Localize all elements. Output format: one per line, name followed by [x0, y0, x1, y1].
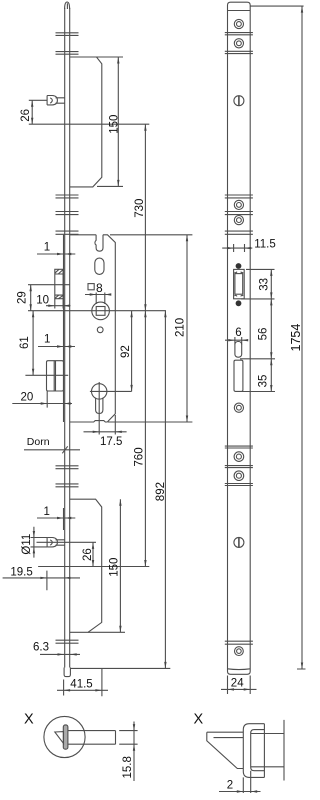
- svg-text:Dorn: Dorn: [27, 436, 50, 448]
- svg-text:1: 1: [44, 334, 50, 346]
- svg-text:11.5: 11.5: [254, 239, 276, 251]
- svg-text:26: 26: [20, 109, 32, 122]
- svg-text:150: 150: [108, 558, 120, 577]
- svg-text:61: 61: [19, 336, 31, 349]
- svg-text:1: 1: [44, 506, 50, 518]
- svg-text:760: 760: [133, 447, 145, 466]
- svg-text:17.5: 17.5: [100, 436, 122, 448]
- svg-text:24: 24: [231, 678, 244, 690]
- svg-text:892: 892: [155, 482, 167, 501]
- svg-text:20: 20: [21, 392, 34, 404]
- svg-text:10: 10: [36, 294, 49, 306]
- svg-text:1754: 1754: [289, 324, 303, 352]
- svg-text:19.5: 19.5: [10, 566, 32, 578]
- svg-text:Ø11: Ø11: [21, 534, 33, 555]
- svg-text:730: 730: [134, 199, 146, 218]
- svg-text:X: X: [24, 712, 34, 728]
- svg-text:1: 1: [44, 241, 50, 253]
- svg-text:6.3: 6.3: [33, 641, 49, 653]
- svg-text:33: 33: [259, 278, 271, 291]
- svg-text:41.5: 41.5: [70, 678, 92, 690]
- svg-text:35: 35: [258, 375, 270, 388]
- svg-text:29: 29: [17, 291, 29, 304]
- svg-text:2: 2: [227, 779, 233, 791]
- svg-text:6: 6: [235, 327, 241, 339]
- svg-text:56: 56: [258, 328, 270, 341]
- svg-text:X: X: [194, 712, 204, 728]
- svg-text:92: 92: [120, 345, 132, 358]
- svg-text:26: 26: [82, 548, 94, 561]
- svg-text:8: 8: [96, 281, 103, 295]
- svg-text:210: 210: [174, 318, 186, 337]
- svg-text:150: 150: [109, 115, 121, 134]
- svg-text:15.8: 15.8: [122, 756, 134, 778]
